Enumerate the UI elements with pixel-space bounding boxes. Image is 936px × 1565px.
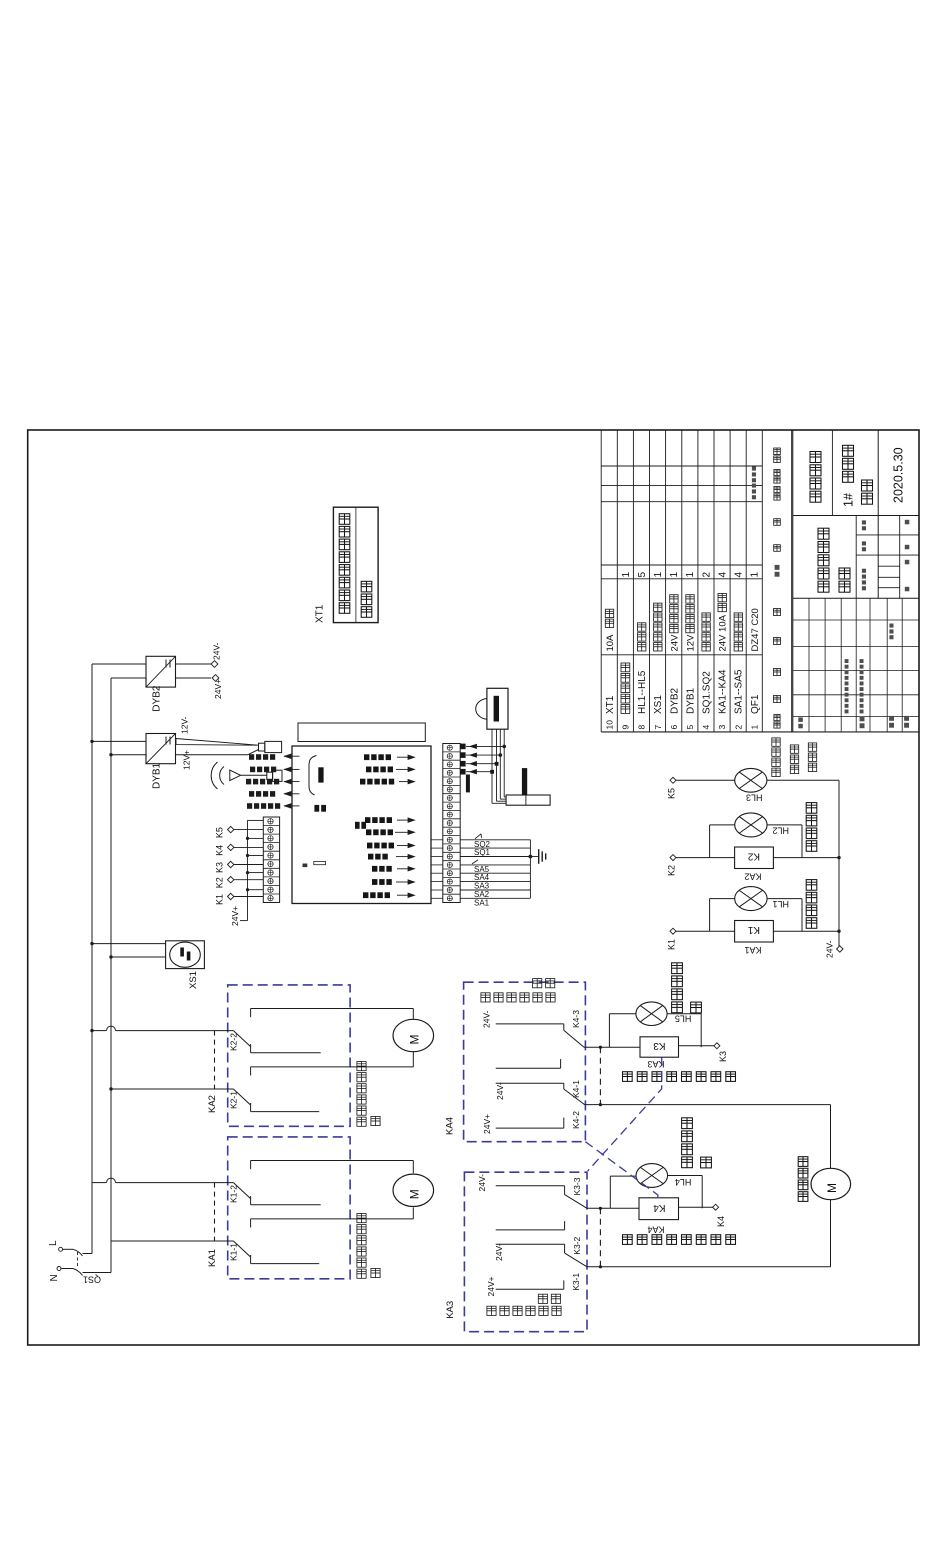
svg-text:K4: K4 — [716, 1216, 726, 1227]
svg-text:XS1: XS1 — [188, 971, 199, 989]
svg-text:HL1: HL1 — [772, 899, 789, 909]
svg-text:K3-3: K3-3 — [572, 1177, 582, 1195]
svg-text:M: M — [408, 1189, 422, 1199]
svg-text:XT1: XT1 — [605, 695, 616, 714]
svg-text:24V-: 24V- — [212, 642, 222, 660]
svg-text:5: 5 — [685, 725, 695, 730]
svg-text:24V-: 24V- — [494, 1243, 504, 1261]
svg-text:K2-2: K2-2 — [229, 1033, 239, 1051]
svg-text:K3: K3 — [653, 1040, 666, 1051]
svg-text:24V-: 24V- — [477, 1174, 487, 1192]
svg-text:K1-2: K1-2 — [229, 1185, 239, 1203]
svg-text:K1-1: K1-1 — [229, 1243, 239, 1261]
svg-text:L: L — [48, 1240, 59, 1246]
svg-text:24V+: 24V+ — [486, 1276, 496, 1296]
svg-text:1: 1 — [750, 572, 761, 578]
svg-text:K1: K1 — [215, 894, 225, 905]
svg-text:K2: K2 — [215, 877, 225, 888]
svg-text:9: 9 — [621, 725, 631, 730]
svg-text:KA1: KA1 — [744, 945, 761, 955]
svg-text:XT1: XT1 — [315, 604, 326, 623]
svg-text:K2: K2 — [747, 851, 760, 862]
svg-text:HL5: HL5 — [675, 1014, 692, 1024]
svg-text:1: 1 — [653, 572, 664, 578]
svg-text:12V-: 12V- — [180, 716, 190, 734]
svg-text:1: 1 — [669, 572, 680, 578]
svg-text:K3: K3 — [215, 862, 225, 873]
svg-text:24V 10A: 24V 10A — [718, 614, 729, 651]
svg-text:QS1: QS1 — [83, 1275, 101, 1285]
svg-text:KA4: KA4 — [445, 1117, 456, 1135]
svg-text:SQ1.SQ2: SQ1.SQ2 — [702, 671, 713, 714]
svg-text:K5: K5 — [667, 788, 677, 799]
svg-text:5: 5 — [637, 572, 648, 578]
svg-text:K4: K4 — [215, 845, 225, 856]
svg-text:2: 2 — [733, 725, 743, 730]
svg-text:24V: 24V — [669, 634, 680, 652]
svg-text:K2: K2 — [667, 865, 677, 876]
svg-text:3: 3 — [717, 725, 727, 730]
svg-text:K5: K5 — [215, 827, 225, 838]
svg-text:4: 4 — [734, 572, 745, 578]
svg-text:SA1: SA1 — [474, 898, 490, 907]
svg-text:HL3: HL3 — [746, 793, 763, 803]
svg-text:24V+: 24V+ — [482, 1114, 492, 1134]
svg-text:24V-: 24V- — [825, 940, 835, 958]
svg-text:DYB2: DYB2 — [152, 685, 163, 712]
svg-text:2: 2 — [701, 572, 712, 578]
svg-text:6: 6 — [669, 725, 679, 730]
svg-text:10A: 10A — [605, 634, 616, 652]
svg-text:DYB1: DYB1 — [685, 687, 696, 714]
svg-text:K4-2: K4-2 — [571, 1111, 581, 1129]
svg-text:M: M — [825, 1183, 839, 1193]
svg-text:KA4: KA4 — [647, 1225, 664, 1235]
svg-text:1#: 1# — [842, 493, 856, 507]
svg-text:7: 7 — [653, 725, 663, 730]
svg-text:24V+: 24V+ — [230, 906, 240, 926]
svg-text:DYB2: DYB2 — [669, 687, 680, 714]
svg-text:K1: K1 — [667, 939, 677, 950]
svg-text:DZ47 C20: DZ47 C20 — [750, 608, 761, 651]
svg-text:KA3: KA3 — [445, 1301, 456, 1319]
svg-text:K4: K4 — [653, 1202, 666, 1213]
svg-text:1: 1 — [685, 572, 696, 578]
svg-text:1: 1 — [621, 572, 632, 578]
svg-text:K4-3: K4-3 — [571, 1010, 581, 1028]
svg-text:HL2: HL2 — [772, 826, 789, 836]
svg-text:KA1: KA1 — [207, 1249, 218, 1267]
svg-text:10: 10 — [605, 720, 615, 730]
svg-text:KA1--KA4: KA1--KA4 — [718, 669, 729, 714]
svg-text:24V+: 24V+ — [213, 679, 223, 699]
svg-text:K4-1: K4-1 — [571, 1080, 581, 1098]
svg-text:8: 8 — [637, 725, 647, 730]
svg-text:XS1: XS1 — [653, 695, 664, 714]
svg-text:KA2: KA2 — [207, 1095, 218, 1113]
svg-text:M: M — [408, 1035, 422, 1045]
svg-text:K3: K3 — [718, 1051, 728, 1062]
svg-text:DYB1: DYB1 — [152, 762, 163, 789]
svg-text:12V+: 12V+ — [182, 750, 192, 770]
svg-text:4: 4 — [717, 572, 728, 578]
svg-text:HL4: HL4 — [675, 1177, 692, 1187]
svg-text:24V-: 24V- — [482, 1010, 492, 1028]
svg-text:KA2: KA2 — [744, 872, 761, 882]
svg-text:4: 4 — [701, 725, 711, 730]
svg-text:K3-1: K3-1 — [571, 1273, 581, 1291]
svg-text:24V-: 24V- — [495, 1082, 505, 1100]
svg-text:K1: K1 — [747, 924, 760, 935]
svg-text:1: 1 — [749, 725, 759, 730]
svg-text:12V: 12V — [685, 634, 696, 652]
svg-text:2020.5.30: 2020.5.30 — [892, 447, 906, 503]
svg-text:K3-2: K3-2 — [572, 1236, 582, 1254]
svg-text:QF1: QF1 — [750, 694, 761, 714]
svg-text:SQ1: SQ1 — [474, 848, 491, 857]
svg-text:K2-1: K2-1 — [229, 1091, 239, 1109]
svg-text:SA1--SA5: SA1--SA5 — [734, 669, 745, 714]
svg-text:HL1--HL5: HL1--HL5 — [637, 670, 648, 714]
svg-text:N: N — [49, 1274, 60, 1281]
